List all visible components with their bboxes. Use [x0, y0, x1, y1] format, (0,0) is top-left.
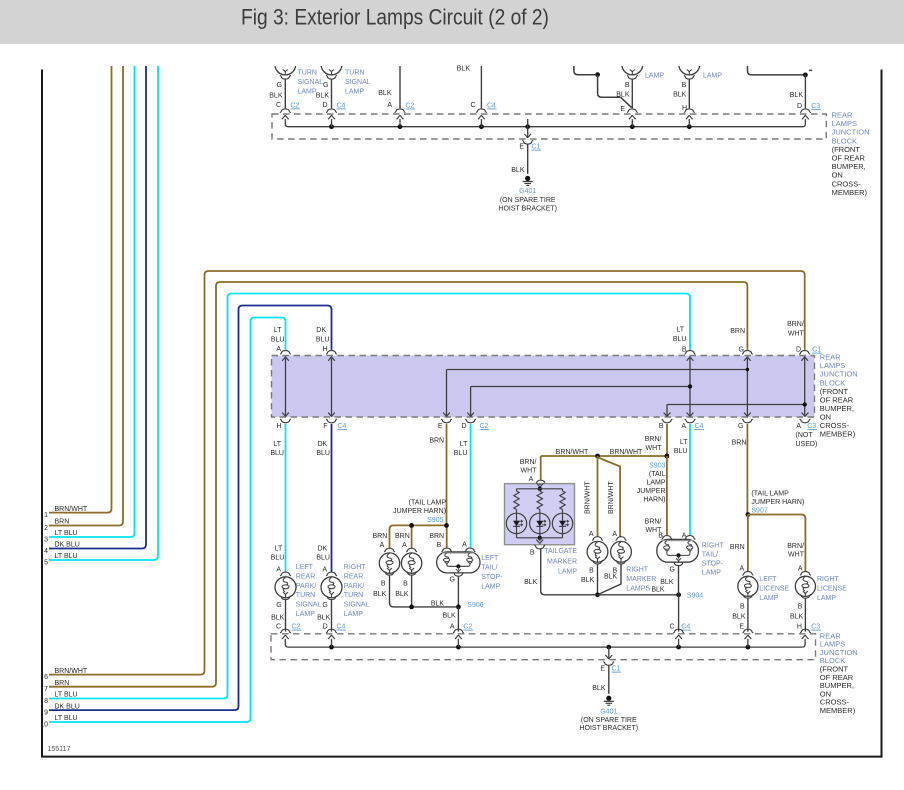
svg-text:A: A: [387, 102, 392, 109]
svg-text:G: G: [322, 602, 327, 609]
wire BLK left park lamp to C2-C: [285, 600, 287, 632]
bulb filament tail: [329, 70, 334, 72]
svg-text:DK: DK: [317, 441, 327, 448]
svg-text:BRN/WHT: BRN/WHT: [610, 449, 643, 456]
bulb bottom connector: [627, 76, 638, 80]
left rear park/turn signal lamp: [280, 572, 291, 576]
svg-text:BRN: BRN: [730, 544, 745, 551]
wire BLK S906 to C2-A: [457, 607, 459, 632]
svg-text:LT BLU: LT BLU: [55, 692, 78, 699]
wire BLK marker lamps to splice S906: [390, 575, 457, 607]
svg-text:LAMP: LAMP: [296, 611, 315, 618]
svg-text:G: G: [276, 602, 281, 609]
resistor R3: [562, 489, 564, 491]
svg-text:3: 3: [44, 536, 48, 543]
svg-text:LT: LT: [676, 327, 684, 334]
svg-text:C1: C1: [612, 666, 621, 673]
svg-text:BRN/WHT: BRN/WHT: [55, 668, 88, 675]
wire elbow from cut edge to node: [574, 66, 595, 75]
svg-text:BRN/WHT: BRN/WHT: [55, 506, 88, 513]
svg-text:BRN: BRN: [395, 533, 410, 540]
svg-text:LAMP: LAMP: [345, 89, 364, 96]
connector C4 pin D (bottom block): [326, 629, 337, 633]
bus junction dot: [329, 124, 334, 129]
LED D3: [552, 513, 572, 533]
svg-text:WHT: WHT: [788, 552, 805, 559]
svg-text:A: A: [402, 542, 407, 549]
svg-text:LT BLU: LT BLU: [55, 715, 78, 722]
pin entry arrow (bottom block): [675, 635, 682, 639]
svg-text:C3: C3: [811, 103, 820, 110]
wire LT BLU pin A-C4 to right tail lamp pin A: [689, 424, 691, 536]
svg-text:WHT: WHT: [521, 468, 538, 475]
left license lamp: [742, 571, 753, 575]
svg-text:C: C: [276, 624, 281, 631]
connector pin H (top): [326, 350, 337, 354]
bus junction dot: [630, 124, 635, 129]
wire elbow right from cut edge: [748, 66, 804, 75]
svg-text:LAMP: LAMP: [481, 584, 500, 591]
svg-text:(ON SPARE TIRE: (ON SPARE TIRE: [500, 197, 556, 204]
pin entry arrow (bottom block): [455, 635, 462, 639]
tailgate internal top rail: [517, 488, 563, 490]
svg-text:C4: C4: [695, 423, 704, 430]
wire BRN pin G to splice S907: [746, 424, 748, 515]
svg-text:LT: LT: [273, 441, 281, 448]
bus junction dot (bottom block): [329, 645, 334, 650]
svg-text:BLK: BLK: [790, 92, 804, 99]
lamp 3 bulb (cut at top): [622, 54, 643, 75]
svg-text:B: B: [682, 347, 687, 354]
svg-text:STOP-: STOP-: [702, 561, 724, 568]
svg-text:S903: S903: [649, 463, 665, 470]
wire BLK lamp3 to C1-E: [631, 79, 633, 108]
wire BRN S905 to left tail lamp pin B: [446, 525, 448, 548]
svg-text:WHT: WHT: [646, 445, 663, 452]
svg-text:C4: C4: [487, 102, 496, 109]
bus junction dot: [525, 124, 530, 129]
svg-text:BRN: BRN: [429, 533, 444, 540]
svg-text:LEFT: LEFT: [296, 564, 314, 571]
resistor R1: [516, 489, 518, 491]
svg-text:HOIST BRACKET): HOIST BRACKET): [498, 206, 557, 213]
block internal pass-through A-H: [285, 358, 287, 416]
svg-text:D: D: [797, 103, 802, 110]
svg-text:BRN: BRN: [732, 439, 747, 446]
svg-text:C4: C4: [337, 102, 346, 109]
svg-text:S905: S905: [427, 517, 443, 524]
svg-text:MARKER: MARKER: [547, 558, 577, 565]
svg-text:S904: S904: [687, 593, 703, 600]
connector pin G (top): [742, 350, 753, 354]
block internal path B-bottom to D: [667, 405, 805, 416]
svg-text:BLU: BLU: [674, 448, 688, 455]
svg-text:A: A: [276, 566, 281, 573]
node junction dot: [595, 72, 600, 77]
svg-text:RIGHT: RIGHT: [344, 564, 367, 571]
wire BRN pin E to splice S905: [446, 424, 448, 526]
wire BLK right license to C3-H: [804, 598, 806, 631]
wire BRN to off-page pin 2: [49, 66, 123, 526]
block internal path B to A: [689, 358, 691, 416]
turn signal lamp 1 bulb (cut at top): [275, 54, 296, 75]
svg-text:C: C: [276, 102, 281, 109]
svg-text:H: H: [276, 423, 281, 430]
wire BLK left license to C3-E: [747, 598, 749, 631]
svg-text:4: 4: [44, 548, 48, 555]
wire LT BLU junction block to off-page pin 10: [49, 318, 286, 723]
svg-text:S906: S906: [467, 602, 483, 609]
svg-text:G401: G401: [600, 709, 617, 716]
wire BLK tailgate to ground bus: [541, 549, 595, 595]
svg-text:F: F: [323, 423, 327, 430]
svg-text:LAMP: LAMP: [759, 595, 778, 602]
svg-text:MEMBER): MEMBER): [820, 706, 856, 715]
wire BLK marker lamp1 to bus: [597, 564, 599, 595]
wire BLK to ground: [527, 144, 529, 174]
bottom block internal bus: [285, 639, 805, 647]
wire BRN/WHT pin B to splice S903: [666, 424, 668, 456]
svg-text:DK: DK: [316, 327, 326, 334]
svg-text:C4: C4: [681, 624, 690, 631]
ground drop wire E-C1 (bottom): [608, 647, 610, 659]
svg-text:BLU: BLU: [271, 337, 285, 344]
ground G401 (bottom): [606, 696, 611, 701]
connector pin E: [627, 109, 638, 113]
svg-text:B: B: [659, 423, 664, 430]
svg-text:A: A: [681, 423, 686, 430]
svg-text:RIGHT: RIGHT: [626, 567, 649, 574]
svg-text:B: B: [625, 82, 630, 89]
wire BLK S904 to C4-C: [678, 595, 680, 632]
connector C4 pin F (bottom): [326, 419, 337, 423]
splice S906: [456, 605, 461, 610]
svg-text:(NOT: (NOT: [796, 432, 814, 439]
svg-text:(TAIL: (TAIL: [649, 471, 666, 478]
svg-text:LEFT: LEFT: [481, 555, 499, 562]
svg-text:TAIL/: TAIL/: [702, 552, 718, 559]
svg-text:E: E: [438, 423, 443, 430]
connector tailgate pin A: [535, 480, 546, 484]
svg-text:BLU: BLU: [271, 555, 285, 562]
svg-text:RIGHT: RIGHT: [817, 576, 840, 583]
connector pin B (top): [685, 351, 696, 355]
svg-text:PARK/: PARK/: [344, 583, 365, 590]
junction dot internal 2: [803, 402, 807, 406]
svg-text:H: H: [323, 346, 328, 353]
block internal path E to G: [447, 370, 748, 416]
svg-text:C1: C1: [532, 144, 541, 151]
svg-text:A: A: [529, 476, 534, 483]
splice S905 jumper: [390, 525, 447, 548]
lamp 4 bulb (cut at top): [679, 54, 700, 75]
svg-text:A: A: [322, 566, 327, 573]
right rear park/turn signal lamp: [326, 572, 337, 576]
svg-text:BRN/WHT: BRN/WHT: [585, 481, 592, 514]
svg-text:TAIL/: TAIL/: [481, 565, 497, 572]
block internal pass-through H-F: [331, 358, 333, 416]
svg-text:D: D: [323, 624, 328, 631]
svg-text:SIGNAL: SIGNAL: [298, 79, 324, 86]
wire BLK turn signal lamp1 to C2-C: [284, 79, 286, 108]
svg-text:STOP-: STOP-: [481, 574, 503, 581]
svg-text:BLK: BLK: [457, 66, 471, 73]
svg-text:B: B: [589, 568, 594, 575]
wire BRN/WHT to off-page pin 1: [49, 66, 112, 513]
svg-text:A: A: [740, 565, 745, 572]
svg-text:LT: LT: [275, 546, 283, 553]
svg-text:BRN: BRN: [373, 533, 388, 540]
wire DK BLU junction block to off-page pin 9: [49, 306, 332, 711]
svg-text:B: B: [403, 580, 408, 587]
svg-text:LAMP: LAMP: [702, 570, 721, 577]
svg-text:G: G: [449, 576, 454, 583]
svg-text:MEMBER): MEMBER): [832, 188, 868, 197]
svg-text:LAMP: LAMP: [645, 73, 664, 80]
svg-text:LT BLU: LT BLU: [55, 553, 78, 560]
connector C2 pin C (bottom block): [280, 629, 291, 633]
svg-text:G: G: [323, 82, 328, 89]
svg-text:PARK/: PARK/: [296, 583, 317, 590]
svg-text:C3: C3: [807, 423, 816, 430]
svg-text:BLK: BLK: [660, 579, 674, 586]
svg-text:LAMP: LAMP: [344, 611, 363, 618]
svg-text:TURN: TURN: [344, 592, 363, 599]
pin entry arrow (bottom block): [802, 635, 809, 639]
svg-text:BLK: BLK: [511, 167, 525, 174]
splice S907 jumper to right license lamp: [748, 515, 806, 572]
svg-text:BLK: BLK: [271, 614, 285, 621]
svg-text:D: D: [796, 347, 801, 354]
svg-text:BRN: BRN: [730, 328, 745, 335]
svg-text:BLK: BLK: [592, 685, 606, 692]
svg-text:REAR: REAR: [296, 573, 315, 580]
svg-text:C: C: [670, 624, 675, 631]
svg-text:REAR: REAR: [344, 573, 363, 580]
svg-text:G: G: [738, 423, 743, 430]
tailgate marker lamp box: [505, 484, 575, 545]
connector C3 pin A (bottom, not used): [800, 419, 811, 423]
svg-text:WHT: WHT: [788, 331, 805, 338]
svg-text:LAMP: LAMP: [646, 480, 665, 487]
svg-text:BLK: BLK: [378, 90, 392, 97]
svg-text:TURN: TURN: [296, 592, 315, 599]
svg-text:BLK: BLK: [604, 574, 618, 581]
ground drop wire E-C1: [527, 127, 529, 138]
pin entry arrow: [328, 116, 335, 120]
svg-text:2: 2: [44, 525, 48, 532]
svg-text:7: 7: [44, 686, 48, 693]
wire BRN/WHT S903 to tailgate lamp pin A: [540, 456, 542, 480]
splice S904: [676, 592, 681, 597]
wire LT BLU junction block to off-page pin 8: [49, 294, 690, 699]
wire BRN/WHT junction block to off-page pin 6: [49, 271, 805, 675]
svg-text:C2: C2: [292, 624, 301, 631]
svg-text:BLK: BLK: [581, 577, 595, 584]
left tail/stop lamp (dual filament): [437, 552, 480, 573]
svg-text:C2: C2: [406, 102, 415, 109]
svg-text:(TAIL LAMP: (TAIL LAMP: [751, 491, 789, 498]
connector C2 pin A (bottom block): [453, 629, 464, 633]
connector pin H: [684, 109, 695, 113]
svg-text:BRN: BRN: [55, 519, 70, 526]
cut wire stub: [809, 69, 812, 71]
svg-text:BLK: BLK: [616, 91, 630, 98]
svg-text:SIGNAL: SIGNAL: [345, 79, 371, 86]
rear lamps junction block (top, dashed): [272, 114, 826, 139]
LED D2: [530, 513, 550, 533]
resistor R2: [539, 489, 541, 491]
bulb filament tail: [630, 70, 635, 72]
svg-text:8: 8: [44, 698, 48, 705]
pin entry arrow: [397, 116, 404, 120]
svg-text:USED): USED): [796, 441, 818, 448]
title bar: [0, 0, 904, 44]
connector C1 pin E (bottom): [603, 662, 614, 666]
svg-text:BRN/: BRN/: [645, 436, 662, 443]
wire BLK to C4-C: [480, 66, 482, 108]
connector pin B (bottom): [662, 419, 673, 423]
wire BRN/WHT S903 to right tail lamp pin B: [666, 456, 668, 536]
svg-text:B: B: [682, 82, 687, 89]
svg-text:DK BLU: DK BLU: [55, 542, 80, 549]
svg-text:TURN: TURN: [345, 70, 364, 77]
svg-text:A: A: [380, 542, 385, 549]
pin entry arrow (bottom block): [744, 635, 751, 639]
wire BLK node to C3-D: [804, 75, 806, 108]
ground bus junction dot: [595, 592, 600, 597]
bus junction dot: [398, 124, 403, 129]
svg-text:LT: LT: [680, 439, 688, 446]
wire BLK marker lamp2 diagonal to bus: [598, 564, 621, 594]
svg-text:C4: C4: [338, 423, 347, 430]
svg-text:G401: G401: [519, 188, 536, 195]
connector C1 pin D (top): [799, 350, 810, 354]
bus junction dot: [479, 124, 484, 129]
svg-text:MARKER: MARKER: [626, 576, 656, 583]
splice S905 dots: [409, 523, 414, 528]
svg-text:(TAIL LAMP: (TAIL LAMP: [409, 500, 447, 507]
svg-text:9: 9: [44, 709, 48, 716]
svg-text:LEFT: LEFT: [759, 576, 777, 583]
svg-text:BRN/: BRN/: [645, 519, 662, 526]
svg-text:BLK: BLK: [673, 91, 687, 98]
wire BRN/WHT S903 branch to marker lamp A 2: [598, 456, 621, 537]
svg-text:LICENSE: LICENSE: [817, 586, 847, 593]
svg-text:B: B: [740, 604, 745, 611]
svg-text:HOIST BRACKET): HOIST BRACKET): [579, 725, 638, 732]
pin entry arrow (bottom block): [328, 635, 335, 639]
wire BRN S907 to left license lamp: [747, 515, 749, 572]
svg-text:BLK: BLK: [316, 93, 330, 100]
tailgate exit wire: [539, 538, 541, 541]
bulb bottom connector: [280, 76, 291, 80]
wire BLK node to lamp3 pin E: [598, 75, 621, 98]
connector C4 pin C (bottom block): [673, 629, 684, 633]
node junction dot right: [803, 73, 808, 78]
wire DK BLU to off-page pin 4: [49, 66, 146, 549]
svg-text:BLU: BLU: [673, 336, 687, 343]
svg-text:A: A: [276, 346, 281, 353]
left marker lamp 2: [406, 548, 417, 552]
svg-text:TAILGATE: TAILGATE: [544, 548, 577, 555]
pin entry arrow: [282, 116, 289, 120]
svg-text:RIGHT: RIGHT: [702, 543, 725, 550]
wire LT BLU to off-page pin 3: [49, 66, 135, 537]
wire BLK tail lamp G to splice S906: [457, 576, 459, 607]
svg-text:BLU: BLU: [454, 450, 468, 457]
svg-text:JUMPER: JUMPER: [637, 488, 666, 495]
bulb bottom connector: [326, 76, 337, 80]
LED D1: [506, 513, 526, 533]
svg-text:SIGNAL: SIGNAL: [296, 602, 322, 609]
svg-text:LAMP: LAMP: [298, 89, 317, 96]
connector C3 pin E (bottom block): [742, 629, 753, 633]
tailgate lamp entry: [539, 484, 541, 485]
bus junction dot (bottom block): [456, 645, 461, 650]
wire BLK to ground (bottom): [608, 665, 610, 694]
svg-text:BLK: BLK: [524, 579, 538, 586]
svg-text:BLU: BLU: [316, 450, 330, 457]
svg-text:JUMPER HARN): JUMPER HARN): [393, 508, 446, 515]
right license lamp: [800, 571, 811, 575]
svg-text:BLK: BLK: [651, 587, 665, 594]
svg-text:H: H: [797, 624, 802, 631]
pin entry arrow: [478, 116, 485, 120]
connector pin E (bottom): [441, 419, 452, 423]
left marker lamp 1: [384, 548, 395, 552]
svg-text:BRN: BRN: [429, 438, 444, 445]
svg-text:LAMP: LAMP: [558, 569, 577, 576]
svg-text:Fig 3: Exterior Lamps Circuit: Fig 3: Exterior Lamps Circuit (2 of 2): [241, 5, 549, 30]
svg-text:LT: LT: [274, 327, 282, 334]
svg-text:BLK: BLK: [442, 613, 456, 620]
bulb filament tail: [283, 70, 288, 72]
wire DK BLU pin F to right park lamp: [331, 424, 333, 572]
svg-text:BRN/WHT: BRN/WHT: [556, 449, 589, 456]
bulb filament tail: [687, 70, 692, 72]
connector C3 pin H (bottom block): [800, 629, 811, 633]
ground G401 (top): [525, 176, 530, 181]
svg-text:1: 1: [44, 512, 48, 519]
svg-text:C2: C2: [480, 423, 489, 430]
svg-text:D: D: [461, 423, 466, 430]
block internal path D to A: [804, 358, 806, 416]
svg-text:SIGNAL: SIGNAL: [344, 602, 370, 609]
svg-text:5: 5: [44, 559, 48, 566]
svg-text:BRN: BRN: [55, 680, 70, 687]
svg-text:E: E: [519, 144, 524, 151]
svg-text:D: D: [322, 102, 327, 109]
pin entry arrow (bottom block): [282, 635, 289, 639]
rear lamps junction block (bottom, dashed): [271, 634, 816, 660]
svg-text:6: 6: [44, 674, 48, 681]
svg-text:B: B: [798, 604, 803, 611]
svg-text:A: A: [589, 531, 594, 538]
svg-text:BLU: BLU: [270, 450, 284, 457]
svg-text:LT: LT: [460, 441, 468, 448]
svg-text:H: H: [682, 105, 687, 112]
splice S907: [746, 512, 751, 517]
svg-text:G: G: [739, 347, 744, 354]
svg-text:A: A: [796, 423, 801, 430]
svg-text:C2: C2: [463, 624, 472, 631]
svg-text:10: 10: [40, 721, 48, 728]
svg-text:LAMP: LAMP: [703, 73, 722, 80]
svg-text:BRN/WHT: BRN/WHT: [608, 481, 615, 514]
wire BLK right park lamp to C4-D: [331, 600, 333, 632]
svg-text:BLK: BLK: [269, 93, 283, 100]
